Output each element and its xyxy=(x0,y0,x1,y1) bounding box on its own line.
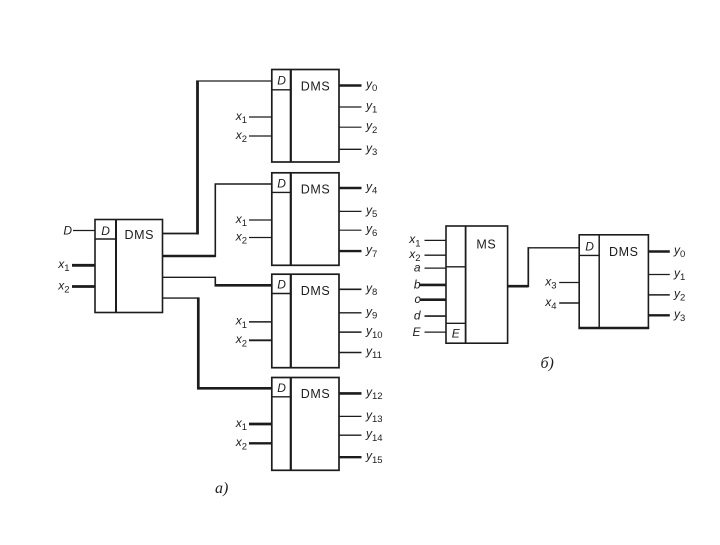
output y1 of U2 xyxy=(339,99,377,116)
output y5 of U3 xyxy=(339,203,377,220)
output y14 of U5 xyxy=(339,427,383,444)
svg-text:DMS: DMS xyxy=(609,245,639,259)
svg-text:E: E xyxy=(412,325,421,339)
demultiplexer U2 (outputs y0-y3) body xyxy=(272,70,339,163)
svg-text:D: D xyxy=(63,224,72,238)
output y2 of U2 xyxy=(339,119,377,136)
input D of U1 xyxy=(63,224,95,238)
input b of U6 xyxy=(414,277,446,291)
input x2 of U4 xyxy=(235,332,272,349)
input x1 of U1 xyxy=(57,257,95,274)
input x2 of U1 xyxy=(57,279,95,296)
U4 D strobe box xyxy=(272,278,291,294)
output y2 of U7 xyxy=(648,286,685,303)
wire U1 out0 to U2 D input xyxy=(163,81,272,235)
demultiplexer U1 first-stage DMS body xyxy=(95,220,163,313)
output y1 of U7 xyxy=(648,266,685,283)
svg-text:D: D xyxy=(277,73,286,87)
demultiplexer U4 (outputs y8-y11) body xyxy=(272,274,339,368)
svg-text:D: D xyxy=(277,278,286,292)
demultiplexer U3 (outputs y4-y7) body xyxy=(272,173,339,265)
input x4 of U7 xyxy=(544,295,579,312)
svg-text:DMS: DMS xyxy=(301,182,331,196)
output y3 of U2 xyxy=(339,141,377,158)
svg-text:DMS: DMS xyxy=(301,284,331,298)
input x2 of U3 xyxy=(235,229,272,246)
output y13 of U5 xyxy=(339,408,383,425)
output y0 of U7 xyxy=(648,243,685,260)
input x2 of U2 xyxy=(235,128,272,145)
output y6 of U3 xyxy=(339,222,377,239)
output y4 of U3 xyxy=(339,180,377,197)
U1 D strobe box xyxy=(95,224,116,239)
svg-text:D: D xyxy=(277,381,286,395)
svg-text:E: E xyxy=(452,326,461,340)
output y10 of U4 xyxy=(339,324,383,341)
U6 address/data section divider xyxy=(446,266,466,268)
svg-text:MS: MS xyxy=(476,238,496,252)
output y7 of U3 xyxy=(339,243,377,260)
wire U1 out2 to U4 D input xyxy=(163,277,272,286)
svg-text:б): б) xyxy=(541,355,554,372)
output y0 of U2 xyxy=(339,77,377,94)
output y12 of U5 xyxy=(339,385,383,402)
svg-text:DMS: DMS xyxy=(125,228,155,242)
multiplexer U6 MS body xyxy=(446,226,508,343)
output y8 of U4 xyxy=(339,281,377,298)
input x1 of U5 xyxy=(235,416,272,433)
svg-text:a: a xyxy=(414,261,421,275)
output y15 of U5 xyxy=(339,449,383,466)
svg-text:D: D xyxy=(585,239,594,253)
svg-text:D: D xyxy=(101,224,110,238)
input E of U6 xyxy=(412,325,446,339)
wire U1 out3 to U5 D input xyxy=(163,297,272,388)
output y9 of U4 xyxy=(339,304,377,321)
U7 D strobe box xyxy=(579,239,599,255)
svg-text:DMS: DMS xyxy=(301,79,331,93)
input d of U6 xyxy=(414,309,446,323)
input c of U6 xyxy=(415,292,447,306)
input x1 of U3 xyxy=(235,212,272,229)
input x1 of U6 xyxy=(408,232,446,249)
wire U1 out1 to U3 D input xyxy=(163,184,272,257)
demultiplexer U5 (outputs y12-y15) body xyxy=(272,378,339,471)
input x3 of U7 xyxy=(544,274,579,291)
svg-text:DMS: DMS xyxy=(301,387,331,401)
U2 D strobe box xyxy=(272,73,291,90)
demultiplexer U7 (b) body xyxy=(578,235,649,328)
input x2 of U5 xyxy=(235,435,272,452)
input a of U6 xyxy=(414,261,446,275)
U5 D strobe box xyxy=(272,381,291,397)
output y11 of U4 xyxy=(339,344,382,361)
svg-text:d: d xyxy=(414,309,421,323)
input x1 of U2 xyxy=(235,109,272,126)
svg-text:а): а) xyxy=(215,480,228,497)
svg-text:D: D xyxy=(277,176,286,190)
input x2 of U6 xyxy=(408,247,446,264)
input x1 of U4 xyxy=(235,314,272,331)
U3 D strobe box xyxy=(272,176,291,192)
U6 enable box xyxy=(446,323,466,340)
output y3 of U7 xyxy=(648,307,685,324)
wire U6 output to U7 D input xyxy=(508,247,580,287)
